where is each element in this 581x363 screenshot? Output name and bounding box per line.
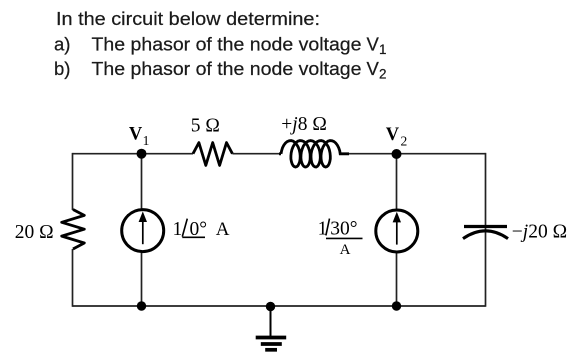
current source I1 circle	[122, 210, 164, 252]
wire: left vertical lower segment	[72, 249, 74, 307]
node: bottom ground junction dot	[266, 302, 275, 311]
svg-text:a): a)	[54, 34, 70, 55]
svg-text:1: 1	[143, 133, 150, 148]
wire: current source 2 lower lead	[396, 253, 398, 306]
current source I2 circle	[376, 210, 418, 252]
node V1 junction dot	[137, 149, 147, 159]
svg-text:1: 1	[318, 219, 328, 240]
svg-text:−j20 Ω: −j20 Ω	[512, 221, 567, 242]
wire: current source 1 lower lead	[141, 253, 143, 307]
svg-text:The phasor of the node voltage: The phasor of the node voltage	[92, 58, 362, 79]
resistor R=5 ohm (horizontal zigzag)	[193, 143, 232, 166]
current source I1 arrow	[139, 211, 147, 244]
svg-text:V: V	[367, 34, 380, 55]
svg-text:b): b)	[54, 58, 70, 79]
resistor R=20 ohm (vertical zigzag)	[62, 210, 85, 250]
wire: left vertical upper segment	[72, 153, 74, 210]
svg-text:A: A	[216, 219, 230, 240]
wire: top wire left segment (V1 area to resistor)	[73, 153, 194, 155]
node: bottom junction dot under I1	[137, 301, 146, 310]
svg-text:1: 1	[379, 42, 387, 57]
capacitor C=-j20 ohm top plate	[464, 225, 507, 228]
svg-text:In the circuit below determine: In the circuit below determine:	[56, 8, 320, 29]
current source I2 value label 1∠30° A	[318, 219, 363, 258]
svg-text:1: 1	[173, 219, 183, 240]
node V2 junction dot	[392, 149, 402, 159]
wire: current source 1 upper lead	[141, 154, 143, 209]
svg-text:+j8 Ω: +j8 Ω	[281, 114, 327, 135]
svg-text:2: 2	[379, 66, 387, 81]
ground symbol	[256, 306, 287, 350]
wire: top wire right segment (inductor to right corner)	[340, 153, 486, 155]
svg-text:A: A	[340, 242, 351, 258]
current source I2 arrow	[393, 212, 401, 245]
wire: bottom wire	[73, 305, 486, 307]
node: bottom junction dot under I2	[392, 301, 401, 310]
svg-text:20 Ω: 20 Ω	[15, 222, 54, 243]
capacitor C=-j20 ohm curved bottom plate	[463, 231, 508, 239]
svg-text:The phasor of the node voltage: The phasor of the node voltage	[92, 34, 362, 55]
svg-text:2: 2	[401, 134, 408, 149]
wire: current source 2 upper lead	[396, 154, 398, 209]
inductor L=+j8 ohm (coil)	[279, 141, 349, 167]
svg-text:0°: 0°	[190, 219, 208, 240]
current source I1 value label 1∠0° A	[173, 219, 230, 240]
svg-text:V: V	[367, 58, 380, 79]
wire: right vertical (through capacitor area)	[485, 153, 487, 307]
svg-text:V: V	[386, 125, 400, 145]
wire: top wire between resistor and inductor	[232, 153, 281, 155]
svg-text:5 Ω: 5 Ω	[191, 115, 220, 136]
svg-text:V: V	[129, 125, 143, 145]
svg-text:30°: 30°	[330, 219, 357, 240]
